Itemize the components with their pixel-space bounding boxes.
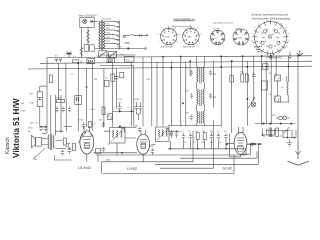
svg-text:UCH42: UCH42 — [78, 165, 92, 170]
ground symbol right — [287, 140, 293, 147]
wire drop x117 — [116, 69, 118, 109]
chassis arrow top right — [297, 51, 303, 56]
mid hatched box — [108, 114, 112, 120]
scale lamp box 2 — [109, 51, 117, 57]
junction dot x120 — [119, 126, 120, 127]
wire drop x151 — [151, 57, 153, 126]
switch break ticks — [140, 34, 142, 37]
wire drop x276 — [275, 56, 277, 75]
svg-text:Röv UAF42: Röv UAF42 — [183, 46, 195, 49]
socket UY1N circle — [210, 30, 225, 45]
fuse box Si — [80, 18, 94, 28]
wire antenna horiz — [40, 85, 47, 87]
mains lead terminals — [146, 35, 148, 37]
socket UCH42 circle — [161, 28, 177, 44]
twin circles indicator — [279, 116, 283, 120]
wire drop x271 — [270, 56, 272, 125]
IF transformer T1 core — [200, 67, 201, 84]
small parts row A — [64, 126, 73, 128]
voltage tap 150 — [105, 29, 114, 31]
box K1 — [125, 56, 134, 62]
T1 terminals — [197, 64, 205, 87]
mains switch lever — [125, 34, 146, 36]
transformer Tr secondary winding — [103, 21, 105, 49]
svg-text:5000: 5000 — [135, 99, 141, 101]
svg-text:UY: UY — [215, 38, 219, 40]
svg-text:110-240V: 110-240V — [102, 19, 112, 21]
wire drop x165 — [162, 57, 164, 126]
svg-text:Anschlussbild - Wicklungsanfan: Anschlussbild - Wicklungsanfang — [252, 16, 290, 20]
T1 trim caps — [190, 70, 212, 76]
voltage tap 125 — [105, 25, 114, 27]
svg-text:1: 1 — [190, 25, 191, 27]
wire h140 left — [56, 141, 67, 149]
wire bottom h173 — [103, 173, 235, 175]
IF transformer T1 left winding — [197, 67, 199, 83]
wire h127 — [118, 126, 136, 128]
T2 terminals — [197, 86, 205, 108]
wire drop x104 — [103, 69, 105, 127]
antenna coil box — [37, 100, 42, 107]
wire tube3 right — [249, 143, 263, 145]
antenna symbol — [66, 52, 72, 58]
junction dots top bus — [162, 56, 163, 57]
wire drop x231 — [231, 61, 233, 133]
svg-text:25µF: 25µF — [21, 111, 27, 113]
wire drop x221 — [220, 56, 222, 126]
svg-text:UL41: UL41 — [223, 166, 233, 171]
wire fusebox right drop — [87, 27, 89, 45]
output transformer primary — [48, 135, 49, 149]
cap C ls2 — [68, 147, 72, 154]
dropper resistor zigzag right — [87, 30, 90, 43]
svg-text:(allseitig bezeichnet): (allseitig bezeichnet) — [213, 22, 233, 25]
agc arrow — [248, 97, 255, 109]
IF transformer T2 right winding — [203, 89, 205, 105]
svg-text:a4: a4 — [285, 28, 287, 30]
svg-text:Netz 110/220V~: Netz 110/220V~ — [79, 14, 98, 18]
tube UBF80 envelope — [137, 134, 150, 154]
svg-text:12: 12 — [265, 34, 267, 36]
mains switch contact — [123, 35, 125, 37]
coupling box between tubes — [95, 149, 100, 154]
svg-text:2k: 2k — [269, 94, 271, 96]
capacitor C4 — [135, 104, 142, 111]
circle-x jack — [251, 102, 256, 107]
svg-text:Viktoria 51 H/W: Viktoria 51 H/W — [12, 98, 21, 158]
svg-text:11: 11 — [273, 34, 275, 36]
wire drop x171 — [170, 62, 172, 127]
right column coil — [287, 82, 288, 95]
IF transformer T3 core — [200, 112, 201, 125]
svg-text:k3: k3 — [280, 24, 282, 26]
svg-text:UM4: UM4 — [238, 37, 243, 39]
sprinkle labels left — [59, 74, 98, 92]
coil pack pinout circle — [255, 22, 287, 54]
tube UCH42 envelope — [80, 131, 94, 154]
svg-text:1M: 1M — [202, 131, 205, 133]
resistor R1 — [73, 60, 79, 63]
svg-text:k2: k2 — [251, 41, 253, 43]
svg-text:dyn. LS: dyn. LS — [30, 123, 38, 125]
choke Dr1 — [120, 72, 124, 77]
cap row A1 — [82, 123, 86, 129]
svg-text:7: 7 — [181, 42, 182, 44]
resistor pair x242 — [241, 74, 244, 82]
wire bottom verticals — [98, 120, 258, 173]
cluster x103 — [102, 122, 105, 128]
junction dots LC — [171, 67, 172, 68]
chassis symbol right — [288, 52, 292, 59]
svg-text:Gesamte Spulenanordnung und: Gesamte Spulenanordnung und — [251, 13, 288, 17]
output transformer core — [50, 134, 51, 150]
svg-text:4: 4 — [199, 42, 200, 44]
speaker magnet — [36, 138, 42, 147]
wire top bus 3 — [28, 66, 312, 69]
wire netz bus — [95, 48, 145, 50]
capacitor C1 group — [55, 59, 62, 62]
wire bottom h158 — [180, 151, 257, 158]
wire drop x155 — [156, 62, 158, 126]
wire coil link — [276, 73, 288, 103]
svg-text:Netz: Netz — [117, 46, 122, 49]
svg-text:a2: a2 — [288, 41, 290, 43]
wire drop x112 — [112, 63, 114, 127]
svg-text:e: e — [251, 33, 252, 35]
caps row left — [55, 107, 71, 113]
svg-text:9: 9 — [274, 41, 275, 43]
wire cathode bus — [168, 148, 246, 150]
svg-text:3: 3 — [200, 34, 201, 36]
svg-text:7: 7 — [159, 42, 160, 44]
parts right column row — [266, 130, 290, 132]
box x264 — [262, 81, 268, 90]
wire mid bus — [100, 66, 134, 126]
svg-text:10: 10 — [265, 41, 267, 43]
dropper resistor zigzag left — [80, 48, 83, 56]
svg-text:4700: 4700 — [79, 120, 85, 122]
wire drop x92 — [92, 64, 94, 131]
wire drop x58 — [58, 63, 60, 99]
svg-text:UCH: UCH — [165, 37, 170, 39]
resistor R ls — [64, 138, 67, 145]
cathode bus dots — [170, 148, 171, 149]
resistor block b — [90, 45, 94, 51]
box on bus x265 — [263, 64, 269, 70]
scale lamp box — [99, 51, 108, 58]
junction dot x183 — [182, 103, 183, 104]
coupling cap — [102, 147, 105, 152]
antenna trimmer box — [37, 92, 42, 98]
svg-text:Netz: Netz — [121, 53, 125, 56]
wire fusebox left drop — [80, 27, 82, 57]
right column resistor hatched — [275, 75, 281, 81]
tap selector arrows — [114, 21, 118, 44]
coil pack spokes — [253, 20, 289, 56]
padder caps right of gang2 — [170, 130, 179, 138]
wire bottom h164 — [155, 163, 258, 165]
coil pack tiny labels — [251, 21, 290, 57]
svg-text:(Chassis)+AZ: (Chassis)+AZ — [266, 56, 282, 60]
svg-text:a1: a1 — [267, 21, 269, 23]
labels under row B — [184, 142, 221, 144]
connector stub row 1 — [263, 129, 275, 135]
tuning gang section 2 — [156, 127, 170, 142]
chassis arrow vertical — [295, 125, 300, 159]
wire drop x247 — [246, 61, 248, 126]
socket UAF42 circle — [183, 28, 199, 44]
wire bottom h168 — [160, 167, 214, 169]
junction dot — [78, 63, 79, 64]
IF transformer T2 left winding — [197, 89, 199, 105]
wire bottom h162 — [102, 161, 194, 163]
IF transformer T3 left winding — [197, 111, 199, 123]
wire drop x143 — [142, 57, 144, 126]
socket UCH42 pins — [158, 25, 180, 48]
wire gnd bus mid — [113, 110, 134, 112]
svg-text:UY92: UY92 — [127, 166, 138, 171]
junction dots h123 — [263, 123, 264, 124]
wire drop x86 — [86, 69, 88, 127]
wire drop x196 — [196, 57, 198, 64]
junction dot netz — [127, 48, 129, 50]
resistor box left horiz — [57, 100, 65, 103]
avc arrow — [78, 132, 86, 143]
tube UBF80 electrodes — [140, 131, 154, 162]
wire ant vertical — [40, 86, 47, 126]
voltage tap 110 — [105, 20, 114, 22]
tap contact circles — [118, 22, 119, 23]
voltage tap 6 — [105, 42, 114, 44]
svg-text:5k: 5k — [219, 142, 221, 144]
svg-text:1M: 1M — [94, 79, 97, 81]
wire otp verticals — [47, 86, 66, 135]
wire top bus 1 — [47, 56, 312, 58]
band labels sprinkle — [55, 53, 125, 58]
IF transformer T1 right winding — [203, 67, 205, 83]
cap left of tube1 — [61, 150, 64, 156]
junction dots mid — [119, 111, 120, 112]
wire drop x66 — [65, 63, 67, 99]
socket UY1N pins — [211, 31, 224, 44]
svg-text:4700: 4700 — [28, 128, 34, 130]
capacitor C3 — [118, 104, 122, 111]
right column labels — [269, 73, 283, 117]
output transformer secondary — [53, 136, 54, 149]
cathode bus stubs — [170, 140, 226, 149]
svg-text:9: 9 — [183, 28, 184, 30]
small parts between tube2 and gang2 — [151, 148, 154, 155]
wire speaker links — [42, 131, 72, 160]
resistor mid x231 — [230, 76, 234, 83]
gang1 bottom stub — [116, 143, 118, 155]
small stub symbol x255 — [254, 47, 262, 54]
svg-text:a3: a3 — [254, 47, 256, 49]
T3 terminals — [197, 108, 205, 127]
svg-text:Netz: Netz — [126, 59, 131, 62]
junction dots bottom — [254, 143, 255, 144]
junction dots tube3 — [226, 144, 227, 145]
voltage tap 220 — [105, 33, 114, 35]
svg-text:k1: k1 — [288, 33, 290, 35]
tube UL41 envelope — [234, 132, 247, 154]
wire drop x78 — [77, 63, 79, 131]
voltage tap 240 — [105, 38, 114, 40]
wire drop x298 — [297, 56, 299, 126]
labels stub row — [263, 136, 283, 138]
transformer Tr primary winding — [99, 21, 101, 49]
svg-text:Kapsch: Kapsch — [5, 137, 11, 154]
IF transformer T2 core — [200, 90, 201, 107]
cap right of tube3 — [251, 142, 254, 146]
T3 trim caps — [190, 115, 193, 121]
connector stub row 2 — [283, 130, 296, 138]
speaker lead arrow — [34, 149, 46, 159]
wire drop x288 — [288, 56, 290, 82]
wire speaker top — [42, 139, 48, 145]
mid resistor vertical — [102, 107, 105, 115]
wire drop x204 — [203, 56, 205, 63]
junction dot link — [121, 152, 122, 153]
resistor right r1 — [269, 128, 272, 137]
junction dot x247 — [247, 98, 248, 99]
wire lower netz — [100, 54, 136, 56]
resistor left of tube1 — [73, 144, 76, 151]
svg-text:4503: 4503 — [106, 159, 112, 161]
svg-text:2: 2 — [175, 28, 176, 30]
svg-text:5n: 5n — [217, 131, 219, 133]
wire drop x253 — [253, 56, 255, 101]
svg-text:Ant: Ant — [30, 93, 34, 96]
svg-text:Röv UCH42: Röv UCH42 — [161, 47, 173, 49]
fuse terminals — [90, 20, 95, 23]
svg-text:5000: 5000 — [56, 98, 62, 100]
svg-text:4: 4 — [177, 42, 178, 44]
svg-text:g4: g4 — [285, 47, 287, 49]
tuning gang section 1 — [110, 128, 126, 144]
svg-text:38R: 38R — [272, 115, 276, 117]
wire h144 tube links — [108, 134, 174, 145]
svg-text:2: 2 — [197, 28, 198, 30]
svg-text:9: 9 — [161, 28, 162, 30]
svg-text:5000: 5000 — [90, 109, 96, 111]
wire h125 — [168, 125, 221, 127]
caps pair near speaker — [39, 126, 47, 132]
transformer Tr core — [101, 20, 102, 50]
pilot lamp La — [83, 19, 87, 23]
socket UM4 circle — [233, 29, 249, 45]
T2 trim caps — [190, 93, 212, 99]
resistor R2 — [111, 74, 114, 81]
osc coil box — [75, 96, 82, 105]
wire drop x242 — [242, 56, 244, 74]
svg-text:g1: g1 — [259, 51, 261, 53]
wire drop x183 — [181, 57, 186, 127]
wire tube1-tube2 link — [94, 152, 137, 154]
tube UL41 wrap wire — [230, 134, 251, 157]
svg-text:g2: g2 — [274, 22, 276, 24]
socket UM4 pins — [234, 30, 248, 45]
svg-text:Fassungsbilder v.u.: Fassungsbilder v.u. — [174, 17, 197, 21]
svg-text:f2: f2 — [280, 51, 282, 53]
svg-text:60W: 60W — [124, 41, 130, 45]
svg-text:1: 1 — [168, 25, 169, 27]
svg-text:Dr: Dr — [281, 87, 283, 89]
wire drop x190 — [189, 61, 191, 76]
wire from fuse box to transformer — [94, 20, 98, 22]
socket UAF42 pins — [180, 25, 202, 48]
cap above tube2 — [138, 127, 141, 132]
labels row B — [181, 131, 228, 133]
wire bottom h155 — [96, 154, 246, 156]
tube UL41 electrodes — [227, 127, 255, 157]
resistor on x50 — [49, 75, 52, 83]
chassis arrow V — [287, 161, 308, 165]
wire drop x262 — [261, 56, 263, 125]
capacitor C2 — [115, 75, 119, 81]
wire drop x131 — [130, 62, 132, 126]
coil pack bottom stub — [268, 54, 273, 60]
pot arrow right — [284, 127, 290, 133]
resistor right r2 — [276, 128, 279, 137]
coil box Sp1 — [87, 59, 95, 64]
wire caps stubs — [120, 103, 141, 121]
right column resistor 2 hatched — [275, 96, 281, 102]
tube UCH42 electrodes — [83, 126, 92, 162]
resistor block a — [84, 45, 88, 51]
tap bus wire — [118, 21, 120, 50]
svg-text:Erde: Erde — [30, 102, 35, 105]
cap row B2 — [210, 133, 228, 140]
svg-text:UAF: UAF — [187, 36, 192, 39]
tick marks left of tube1 — [65, 144, 71, 149]
wire drop x50 — [46, 58, 48, 87]
resistor row A2 — [88, 122, 91, 128]
coil box Sp2 — [107, 58, 115, 62]
wire h123 right — [255, 123, 295, 125]
wire drop x213 — [213, 61, 215, 107]
speaker cone — [32, 135, 36, 147]
wire top bus 2 — [40, 61, 312, 63]
svg-text:8: 8 — [180, 34, 181, 36]
wire drop x266 — [265, 61, 267, 124]
small box x104 — [105, 81, 110, 87]
svg-text:8: 8 — [158, 34, 159, 36]
wire h131 mid — [60, 130, 180, 132]
resistor row B1 — [196, 133, 199, 140]
parts row B x182-232 — [182, 133, 192, 140]
IF transformer T3 right winding — [203, 111, 205, 123]
cap x253 — [252, 72, 256, 78]
